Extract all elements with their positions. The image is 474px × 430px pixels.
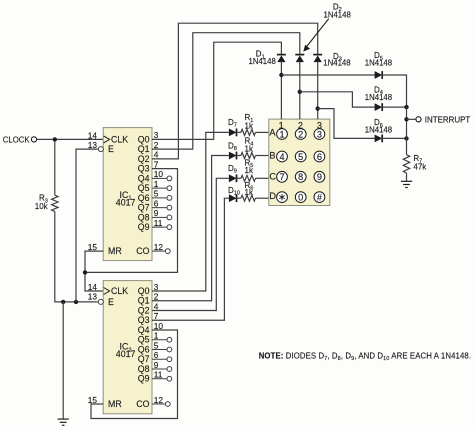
- svg-text:11: 11: [154, 218, 163, 228]
- wire IC1 Q6 NC: [152, 197, 167, 199]
- key 7: [277, 171, 288, 182]
- enable bubble IC2: [98, 299, 103, 304]
- svg-text:1k: 1k: [245, 166, 254, 175]
- arrow D2 label to diode: [306, 19, 329, 47]
- junction column 2 / D4 branch: [298, 90, 302, 94]
- svg-text:12: 12: [154, 242, 164, 252]
- svg-text:6: 6: [154, 198, 159, 208]
- wire IC2 Q4 reset loop to MR: [91, 330, 178, 419]
- key 3: [314, 129, 325, 140]
- IC U2 4017 body (IC2): [103, 281, 152, 414]
- svg-text:13: 13: [88, 140, 98, 150]
- svg-text:10: 10: [154, 169, 164, 179]
- diode D1: [277, 54, 286, 56]
- svg-text:1N4148: 1N4148: [365, 59, 392, 68]
- wire D8 to R4: [236, 155, 241, 157]
- svg-text:0: 0: [298, 192, 303, 202]
- svg-text:1k: 1k: [245, 145, 254, 154]
- wire R4 to keypad: [256, 155, 269, 157]
- svg-text:Q7: Q7: [138, 203, 150, 213]
- svg-text:Q2: Q2: [138, 154, 150, 164]
- wire IC1 Q7 NC: [152, 207, 167, 209]
- svg-text:CO: CO: [136, 246, 149, 256]
- svg-text:Q6: Q6: [138, 344, 150, 354]
- wire column3 to D6: [318, 109, 375, 139]
- svg-text:Q5: Q5: [138, 183, 150, 193]
- svg-text:1: 1: [154, 331, 159, 341]
- svg-text:5: 5: [154, 340, 159, 350]
- wire IC1 Q9 NC: [152, 226, 167, 228]
- svg-text:15: 15: [88, 395, 98, 405]
- svg-text:CLOCK: CLOCK: [3, 135, 30, 144]
- key #: [314, 192, 325, 203]
- svg-text:D: D: [269, 191, 276, 201]
- svg-text:8: 8: [298, 172, 303, 182]
- svg-text:9: 9: [317, 172, 322, 182]
- svg-text:9: 9: [154, 208, 159, 218]
- wire ground branch down: [62, 302, 64, 419]
- key star: [277, 192, 288, 203]
- svg-text:10: 10: [154, 321, 164, 331]
- wire R1 to keypad: [256, 131, 269, 133]
- wire rail D4 to D6: [406, 107, 408, 138]
- svg-text:5: 5: [154, 189, 159, 199]
- svg-text:2: 2: [154, 292, 159, 302]
- wire IC2 Q9 NC: [152, 378, 167, 380]
- wire IC2 CO NC: [152, 403, 166, 405]
- wire IC2 Q0 to keypad row A: [152, 132, 229, 291]
- wire R5 to keypad: [256, 177, 269, 179]
- junction rail/D4: [404, 105, 408, 109]
- svg-text:Q0: Q0: [138, 134, 150, 144]
- svg-text:2: 2: [298, 129, 303, 139]
- wire D5 to rail: [382, 75, 407, 107]
- wire IC1 Q8 NC: [152, 216, 167, 218]
- wire IC1 Q2 to keypad column 3 (top wire 1): [152, 23, 318, 159]
- resistor R1: [241, 129, 256, 135]
- wire IC2 Q7 NC: [152, 358, 167, 360]
- diode D6: [375, 135, 383, 143]
- svg-text:#: #: [317, 192, 323, 202]
- svg-text:1N4148: 1N4148: [249, 57, 276, 66]
- resistor R3: [52, 195, 58, 211]
- key 8: [295, 171, 306, 182]
- svg-text:CLK: CLK: [111, 134, 128, 144]
- svg-text:CLK: CLK: [111, 286, 128, 296]
- svg-text:9: 9: [154, 360, 159, 370]
- junction column 3 / D6 branch: [316, 106, 320, 110]
- key 2: [295, 129, 306, 140]
- svg-text:1N4148: 1N4148: [324, 10, 351, 19]
- svg-text:CO: CO: [136, 399, 149, 409]
- svg-text:Q9: Q9: [138, 374, 150, 384]
- svg-text:E: E: [108, 144, 114, 154]
- junction IC1 enable branch: [74, 300, 78, 304]
- key 4: [277, 151, 288, 162]
- wire CLOCK to IC1 CLK pin 14: [37, 138, 104, 140]
- svg-text:6: 6: [154, 350, 159, 360]
- diode D7: [229, 129, 237, 137]
- resistor R5: [241, 175, 256, 181]
- junction rail/INTERRUPT: [404, 117, 408, 121]
- svg-text:3: 3: [154, 282, 159, 292]
- wire IC1 E pin 13: [76, 149, 98, 302]
- wire column2 to D4: [300, 92, 375, 107]
- wire junction down to R3: [54, 141, 56, 195]
- svg-text:B: B: [269, 151, 275, 161]
- key 5: [295, 151, 306, 162]
- svg-text:14: 14: [88, 130, 98, 140]
- wire to INTERRUPT terminal: [407, 118, 416, 120]
- svg-text:Q3: Q3: [138, 164, 150, 174]
- resistor R7: [403, 155, 409, 173]
- svg-text:7: 7: [279, 172, 284, 182]
- svg-text:D9: D9: [228, 164, 237, 175]
- wire IC2 Q8 NC: [152, 368, 167, 370]
- svg-text:Q8: Q8: [138, 212, 150, 222]
- diode D10: [229, 194, 237, 202]
- ground right: [401, 180, 412, 182]
- svg-text:1N4148: 1N4148: [365, 93, 392, 102]
- diode D8: [229, 152, 237, 160]
- svg-text:Q8: Q8: [138, 364, 150, 374]
- svg-text:47k: 47k: [413, 162, 427, 171]
- diode D3: [313, 54, 322, 56]
- node INTERRUPT terminal: [416, 117, 421, 122]
- svg-text:5: 5: [298, 152, 303, 162]
- clock input symbol IC1: [104, 136, 110, 143]
- resistor R6: [241, 195, 256, 201]
- svg-text:1: 1: [279, 129, 284, 139]
- svg-text:MR: MR: [108, 399, 122, 409]
- clock input symbol IC2: [104, 288, 110, 295]
- svg-text:4: 4: [154, 301, 159, 311]
- diode D5: [375, 71, 383, 79]
- junction clock/R3: [53, 137, 57, 141]
- svg-text:Q0: Q0: [138, 286, 150, 296]
- svg-text:D8: D8: [228, 142, 237, 153]
- svg-text:1k: 1k: [245, 121, 254, 130]
- junction IC1 MR / IC2 CLK: [83, 270, 87, 274]
- svg-text:Q1: Q1: [138, 144, 150, 154]
- wire IC1 Q0 to keypad column 1 (top wire 3): [152, 42, 281, 139]
- wire D9 to R5: [236, 177, 241, 179]
- svg-text:11: 11: [154, 370, 163, 380]
- wire IC2 Q6 NC: [152, 349, 167, 351]
- svg-text:1k: 1k: [245, 188, 254, 197]
- wire D10 to R6: [236, 197, 241, 199]
- svg-text:7: 7: [154, 311, 159, 321]
- svg-text:Q4: Q4: [138, 325, 150, 335]
- key 9: [314, 171, 325, 182]
- svg-text:1N4148: 1N4148: [323, 58, 350, 67]
- junction column 1 / D5 branch: [279, 73, 283, 77]
- junction ground branch: [61, 300, 65, 304]
- junction rail/D6: [404, 136, 408, 140]
- svg-text:Q4: Q4: [138, 173, 150, 183]
- wire IC1 Q3 reset loop to MR and IC2 CLK: [85, 169, 178, 273]
- wire column 3 into keypad: [317, 62, 319, 120]
- key 1: [277, 129, 288, 140]
- wire IC2 Q3 to keypad row D: [152, 198, 229, 320]
- svg-text:1N4148: 1N4148: [365, 126, 392, 135]
- wire IC1 Q5 NC: [152, 187, 167, 189]
- svg-text:6: 6: [317, 152, 322, 162]
- wire IC2 Q1 to keypad row B: [152, 156, 229, 301]
- svg-text:Q6: Q6: [138, 193, 150, 203]
- svg-text:10k: 10k: [35, 202, 49, 211]
- svg-text:14: 14: [88, 282, 98, 292]
- svg-text:3: 3: [154, 130, 159, 140]
- node CLOCK input terminal: [31, 137, 36, 142]
- svg-text:13: 13: [88, 292, 98, 302]
- svg-text:4017: 4017: [116, 197, 136, 207]
- svg-text:NOTE: DIODES D7, D8, D9, AND D: NOTE: DIODES D7, D8, D9, AND D10 ARE EAC…: [259, 352, 471, 363]
- svg-text:Q3: Q3: [138, 315, 150, 325]
- svg-text:4017: 4017: [116, 349, 136, 359]
- wire IC1 CO NC: [152, 250, 166, 252]
- ground left: [58, 418, 69, 420]
- IC U1 4017 body (IC1): [103, 128, 152, 261]
- svg-text:Q2: Q2: [138, 305, 150, 315]
- wire column 1 into keypad: [280, 62, 282, 120]
- svg-text:C: C: [269, 172, 276, 182]
- diode D2: [295, 54, 304, 56]
- svg-text:Q5: Q5: [138, 335, 150, 345]
- svg-text:3: 3: [317, 129, 322, 139]
- svg-text:Q1: Q1: [138, 296, 150, 306]
- svg-text:A: A: [269, 128, 276, 138]
- svg-text:2: 2: [154, 140, 159, 150]
- key 0: [295, 192, 306, 203]
- svg-text:1: 1: [154, 179, 159, 189]
- diode D9: [229, 174, 237, 182]
- wire R6 to keypad: [256, 197, 269, 199]
- svg-text:Q9: Q9: [138, 222, 150, 232]
- wire R7 to ground: [406, 173, 408, 181]
- svg-text:15: 15: [88, 242, 98, 252]
- wire IC2 Q2 to keypad row C: [152, 178, 229, 310]
- wire column1 to D5: [281, 74, 374, 76]
- wire D6 to rail: [382, 137, 407, 139]
- svg-text:INTERRUPT: INTERRUPT: [425, 114, 471, 124]
- wire D4 to rail: [382, 106, 407, 108]
- svg-text:D7: D7: [228, 118, 237, 129]
- svg-text:4: 4: [154, 150, 159, 160]
- svg-text:7: 7: [154, 159, 159, 169]
- enable bubble IC1: [98, 147, 103, 152]
- wire IC2 Q5 NC: [152, 339, 167, 341]
- keypad body: [269, 119, 330, 205]
- svg-text:4: 4: [279, 152, 284, 162]
- svg-text:12: 12: [154, 395, 164, 405]
- resistor R4: [241, 153, 256, 159]
- wire R3 to enable rail: [55, 212, 98, 302]
- wire rail to R7: [406, 138, 408, 154]
- diode D4: [375, 103, 383, 111]
- svg-text:Q7: Q7: [138, 354, 150, 364]
- wire D7 to R1: [236, 131, 241, 133]
- wire column 2 into keypad: [299, 62, 301, 120]
- wire IC1 Q4 NC: [152, 177, 167, 179]
- svg-text:E: E: [108, 297, 114, 307]
- svg-text:MR: MR: [108, 246, 122, 256]
- key 6: [314, 151, 325, 162]
- wire IC1 Q1 to keypad column 2 (top wire 2): [152, 33, 300, 149]
